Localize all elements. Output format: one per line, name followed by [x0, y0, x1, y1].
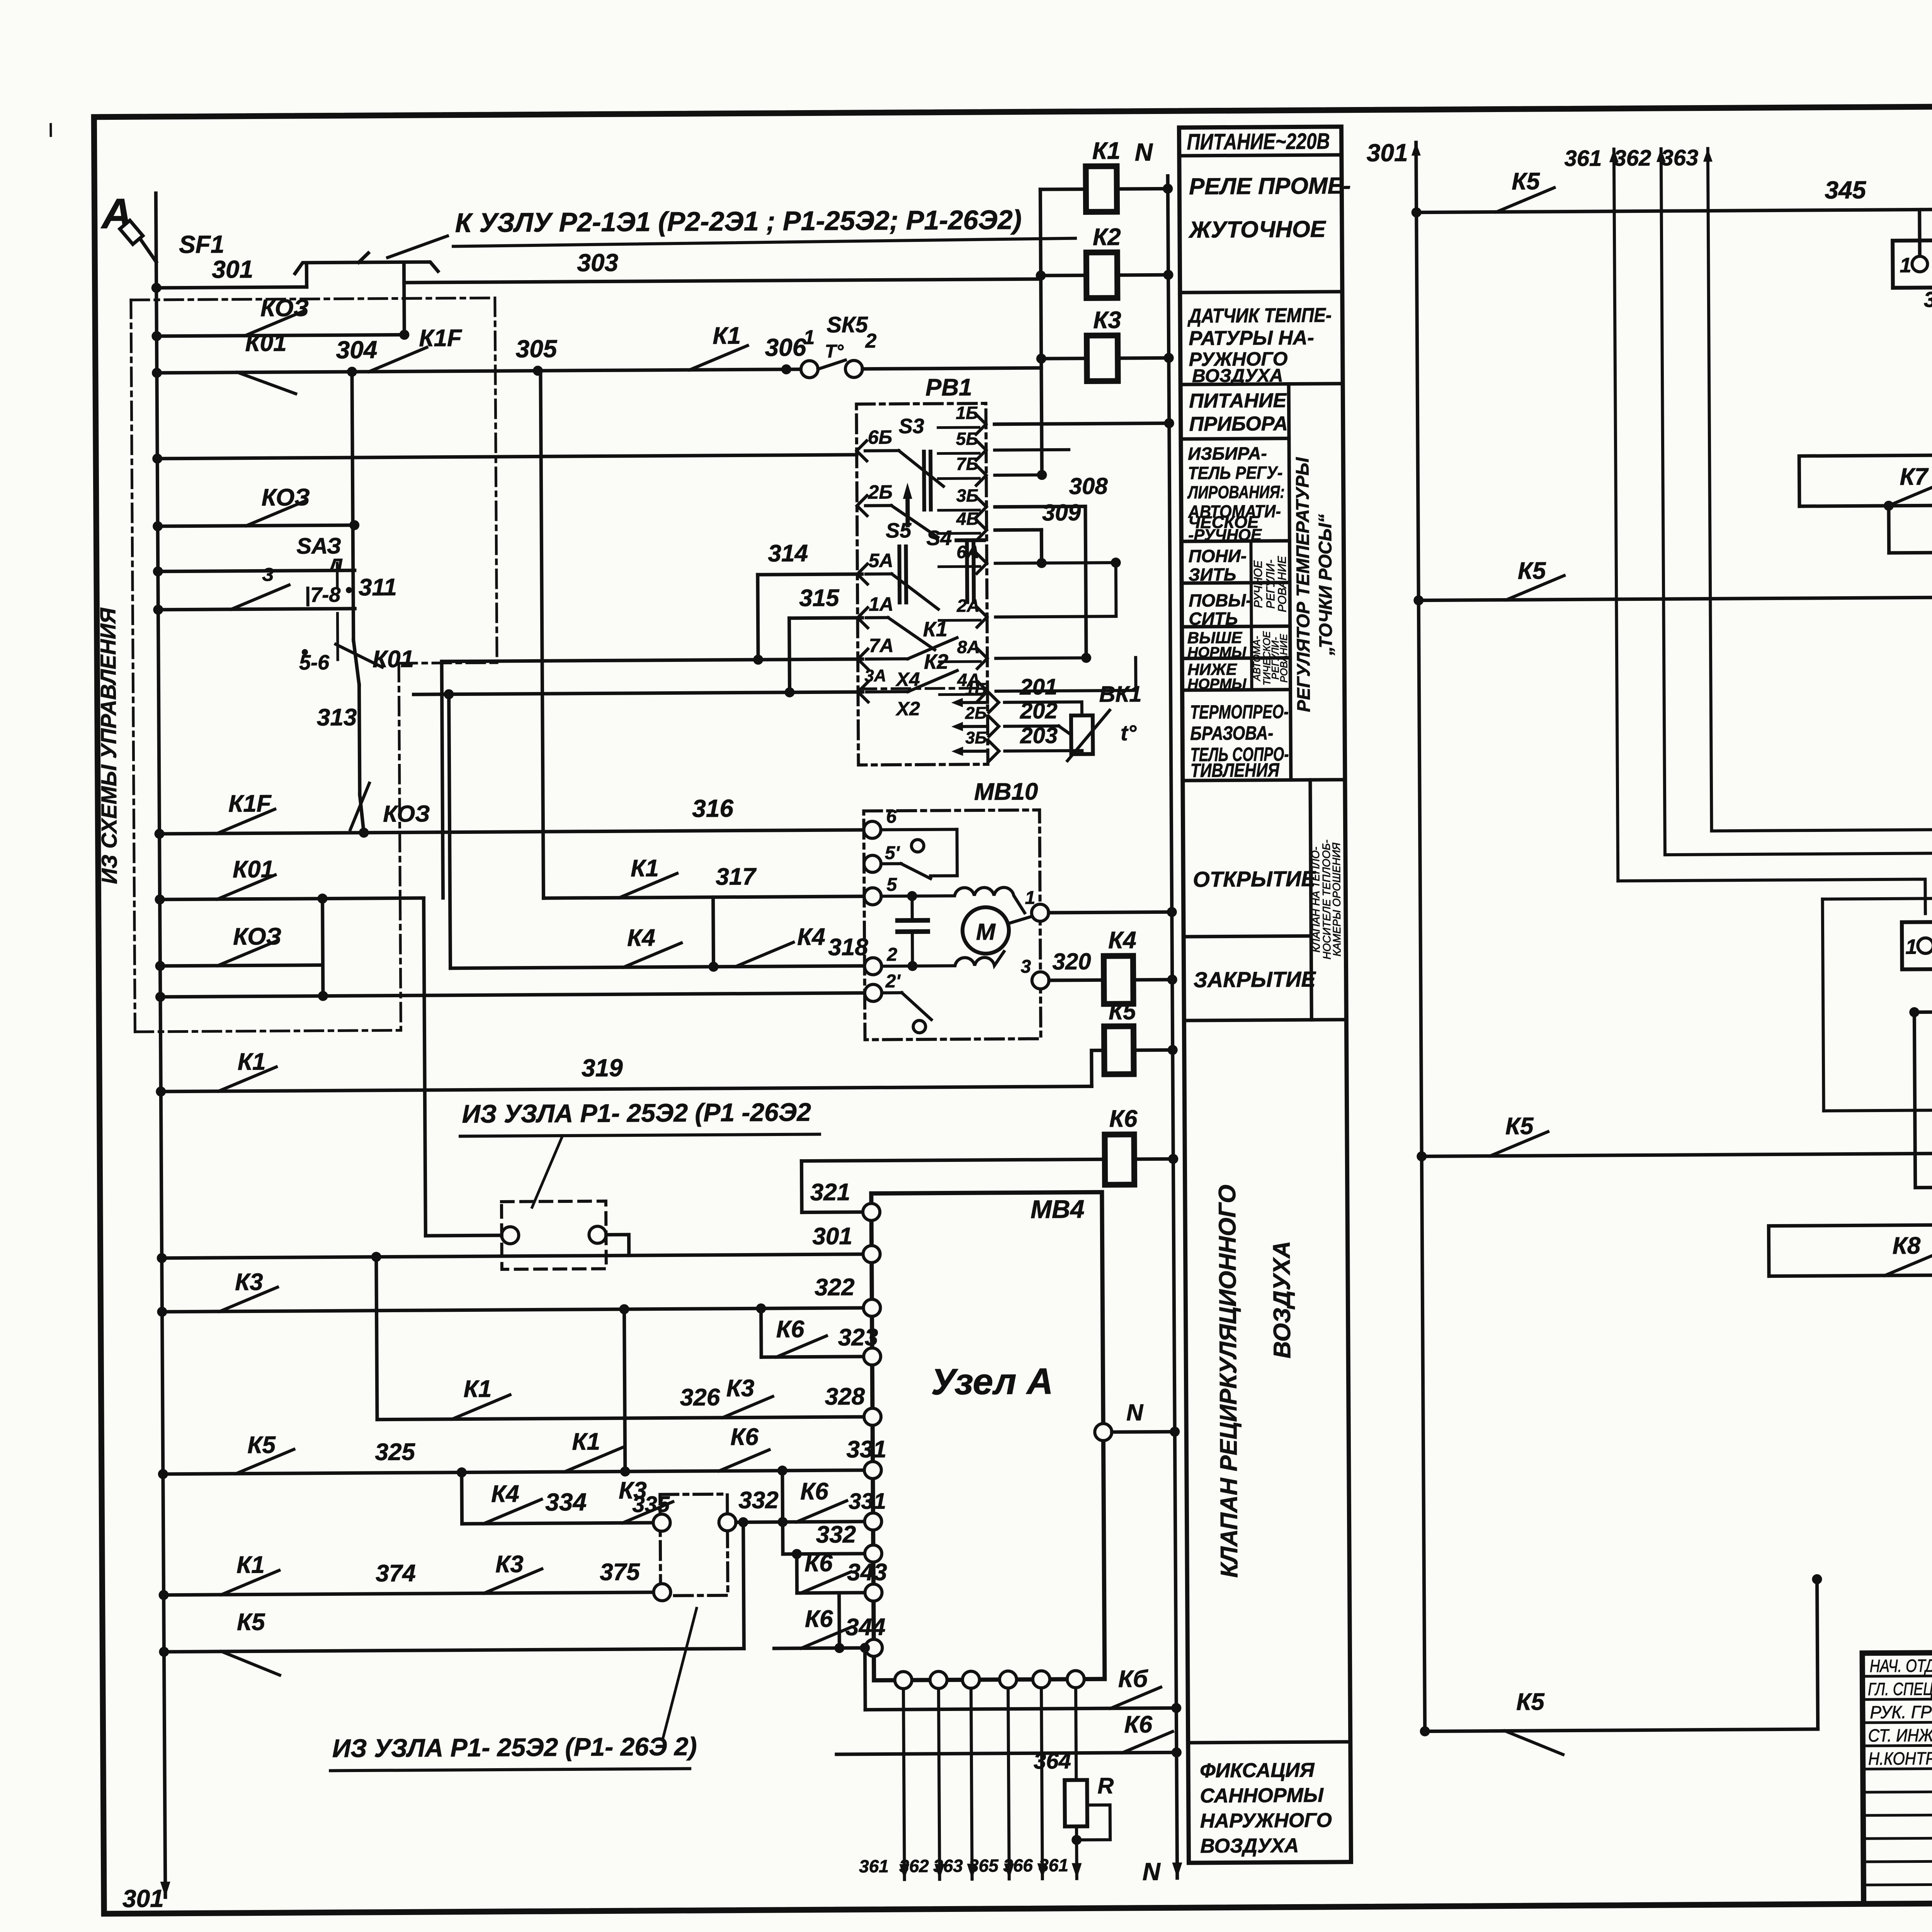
svg-text:РЕГУЛИ-: РЕГУЛИ- [1264, 560, 1277, 609]
selector switch SA3 rung [158, 570, 355, 571]
svg-text:345: 345 [1825, 176, 1867, 204]
vertical 314 to 7А wire [758, 575, 758, 660]
plug connector (dashed box) upper [502, 1201, 606, 1269]
svg-text:КОЗ: КОЗ [262, 484, 310, 511]
wire 301 rung to Узел А [162, 1254, 872, 1258]
svg-text:3Б: 3Б [965, 728, 987, 747]
wire 201 to ВК1 [1005, 702, 1082, 716]
svg-text:З: З [262, 565, 274, 585]
РВ1 pin 1Б right arrow [976, 414, 986, 434]
svg-text:8А: 8А [957, 637, 980, 657]
Узел А bottom pins [895, 1672, 912, 1689]
neutral bus N vertical [1168, 176, 1177, 1878]
svg-text:К5: К5 [1516, 1689, 1545, 1715]
svg-text:309: 309 [1042, 500, 1081, 526]
rotated tiny col Клапан на теплоносителе [1310, 780, 1311, 1020]
svg-text:366: 366 [1003, 1855, 1033, 1875]
sub column divider for Регулятор температуры точки росы [1289, 384, 1291, 780]
svg-text:РАТУРЫ НА-: РАТУРЫ НА- [1189, 327, 1314, 350]
wire 349 rung with К7 [1889, 552, 1932, 553]
wire 308 [995, 506, 1085, 507]
МВ10 internal lower switch [882, 991, 902, 994]
svg-text:361: 361 [1564, 146, 1602, 171]
svg-text:1: 1 [1025, 888, 1035, 908]
svg-text:К6: К6 [776, 1316, 804, 1343]
external connector bracket (serrated) [295, 262, 438, 274]
svg-text:Кб: Кб [1118, 1666, 1148, 1692]
link pin344 to Кб rung [863, 1648, 867, 1710]
МВ10 pin 2-prime [865, 984, 882, 1001]
МВ10 pin 5-prime [864, 855, 881, 872]
svg-text:КЛАПАН РЕЦИРКУЛЯЦИОННОГО: КЛАПАН РЕЦИРКУЛЯЦИОННОГО [1214, 1185, 1243, 1578]
row Питание прибора [1181, 439, 1289, 439]
svg-text:К6: К6 [730, 1423, 759, 1450]
vertical 343-344 [837, 1593, 841, 1648]
svg-text:ИЗ УЗЛА Р1- 25Э2 (Р1 -26Э2: ИЗ УЗЛА Р1- 25Э2 (Р1 -26Э2 [462, 1097, 811, 1128]
ВК1 diagonal arrow [1067, 710, 1110, 761]
Узел А block МВ4 [871, 1192, 1105, 1680]
МВ10 capacitor [898, 918, 928, 923]
РВ1 pin 6Б left arrow [857, 441, 867, 461]
KB1 lower pin 1 [1918, 938, 1932, 953]
svg-text:301: 301 [812, 1223, 852, 1250]
К2 contact inside РВ1 [867, 690, 908, 694]
svg-text:332: 332 [738, 1487, 779, 1514]
wire 315 [789, 618, 862, 618]
relay K2 leads [1041, 274, 1087, 277]
svg-text:364: 364 [1034, 1748, 1071, 1774]
svg-text:ТИВЛЕНИЯ: ТИВЛЕНИЯ [1190, 759, 1280, 781]
К1 contact inside РВ1 [866, 657, 908, 661]
svg-text:ПРИБОРА: ПРИБОРА [1189, 413, 1288, 435]
wire 301 riser legs to external connector bracket [305, 266, 308, 287]
wire from 8А [996, 658, 1086, 658]
svg-text:НОРМЫ: НОРМЫ [1187, 644, 1247, 661]
svg-text:К5: К5 [247, 1432, 276, 1458]
svg-text:344: 344 [845, 1614, 886, 1641]
svg-text:К5: К5 [1109, 998, 1136, 1024]
РВ1 lower pin 1Б with wire 201 [951, 698, 963, 707]
wire 363 elbow to strip2 pin3 [1712, 829, 1932, 915]
МВ10 pin 1 and wire to N [1032, 904, 1049, 921]
svg-text:374: 374 [376, 1560, 416, 1587]
svg-text:320: 320 [1052, 948, 1091, 975]
svg-text:К1: К1 [236, 1551, 265, 1578]
wire 348 rung with К7 [1799, 505, 1932, 506]
svg-text:Л: Л [328, 555, 343, 576]
svg-text:ИЗ УЗЛА Р1- 25Э2 (Р1- 26Э 2): ИЗ УЗЛА Р1- 25Э2 (Р1- 26Э 2) [332, 1732, 697, 1762]
МВ10 pin 5 [864, 888, 881, 905]
svg-text:К2: К2 [1093, 224, 1121, 250]
svg-text:311: 311 [359, 574, 397, 601]
МВ10 pin 2 [864, 957, 881, 975]
svg-text:К1F: К1F [228, 790, 272, 817]
svg-text:РОВАНИЕ: РОВАНИЕ [1278, 634, 1290, 683]
svg-text:5': 5' [885, 843, 900, 863]
svg-text:РУЧНОЕ: РУЧНОЕ [1252, 560, 1265, 608]
wire from 4А [996, 690, 1136, 691]
vertical 304-313 branch [352, 372, 354, 640]
svg-text:6Б: 6Б [868, 426, 893, 448]
К6 rung wire 323 [761, 1357, 872, 1357]
svg-text:Т°: Т° [825, 341, 844, 362]
РВ1 block boundary [856, 403, 988, 765]
row Реле промежуточное [1180, 292, 1342, 293]
wire 303 riser to relay column [1041, 279, 1041, 368]
svg-text:7А: 7А [869, 634, 894, 656]
svg-text:ПОВЫ-: ПОВЫ- [1189, 590, 1252, 611]
wire 332 from connector [736, 1520, 783, 1524]
svg-text:361: 361 [859, 1856, 889, 1876]
РВ1 pin 4Б right arrow [976, 520, 986, 540]
terminal strip KB1 lower [1902, 920, 1932, 969]
svg-text:5А: 5А [869, 549, 893, 571]
svg-text:304: 304 [336, 336, 377, 364]
svg-text:ТЕЛЬ РЕГУ-: ТЕЛЬ РЕГУ- [1188, 463, 1282, 483]
svg-text:ЖУТОЧНОЕ: ЖУТОЧНОЕ [1188, 216, 1327, 243]
contact К1 rung3 [690, 345, 748, 370]
svg-text:5: 5 [886, 874, 897, 895]
svg-text:318: 318 [828, 934, 868, 961]
svg-text:1А: 1А [869, 593, 893, 615]
svg-text:ОТКРЫТИЕ: ОТКРЫТИЕ [1193, 866, 1316, 891]
svg-text:3А: 3А [864, 666, 886, 685]
РВ1 pin 4А right arrow [977, 681, 987, 701]
svg-text:325: 325 [375, 1439, 415, 1466]
thermistor ВК1 [1071, 715, 1093, 754]
svg-text:7Б: 7Б [956, 454, 978, 474]
svg-text:КОЗ: КОЗ [233, 923, 282, 950]
РВ1 pin 8А right arrow [977, 648, 987, 668]
svg-text:КОЗ: КОЗ [383, 801, 430, 827]
svg-text:S3: S3 [899, 415, 924, 438]
row Избиратель регулирования [1181, 541, 1289, 542]
row Термопреобразователь сопротивления [1183, 780, 1345, 781]
1А internal diagonal [866, 616, 888, 619]
svg-text:SК5: SК5 [827, 312, 868, 338]
svg-text:315: 315 [799, 585, 840, 612]
pointer to К узлу text [388, 236, 447, 258]
РВ1 pin 3Б right arrow [976, 497, 986, 517]
svg-text:346: 346 [1924, 287, 1932, 312]
svg-text:К5: К5 [1518, 558, 1546, 584]
svg-text:К3: К3 [235, 1269, 263, 1295]
РВ1 pin 5А left arrow [857, 564, 867, 584]
svg-text:S5: S5 [886, 519, 912, 542]
svg-text:|7-8: |7-8 [304, 583, 340, 607]
svg-text:Узел А: Узел А [931, 1361, 1053, 1403]
wire from 2А [995, 616, 1116, 617]
svg-text:НАЧ. ОТД.: НАЧ. ОТД. [1870, 1655, 1932, 1676]
svg-text:ЗИТЬ: ЗИТЬ [1189, 564, 1236, 585]
relay K3 leads [1041, 357, 1087, 361]
relay K3 coil [1087, 335, 1118, 381]
svg-text:1: 1 [803, 326, 815, 349]
svg-text:К1: К1 [238, 1048, 266, 1075]
svg-text:БРАЗОВА-: БРАЗОВА- [1190, 722, 1273, 744]
rotated sub col автоматическое регулирование [1250, 626, 1253, 690]
svg-text:РЕЛЕ ПРОМЕ-: РЕЛЕ ПРОМЕ- [1189, 173, 1351, 199]
wires 361 362 363 verticals [1614, 149, 1618, 881]
svg-text:ВОЗДУХА: ВОЗДУХА [1269, 1241, 1296, 1359]
vertical 832 [323, 899, 323, 996]
svg-text:РЕГУЛЯТОР ТЕМПЕРАТУРЫ: РЕГУЛЯТОР ТЕМПЕРАТУРЫ [1292, 457, 1314, 712]
bus bottom arrow and label 301 [160, 1882, 170, 1897]
phase bus A vertical [156, 193, 165, 1897]
К3 rung wire 322 [162, 1308, 872, 1312]
svg-text:375: 375 [600, 1559, 640, 1586]
К01 rung (left block) [160, 898, 424, 900]
svg-text:К УЗЛУ Р2-1Э1 (Р2-2Э1 ; Р1-: К УЗЛУ Р2-1Э1 (Р2-2Э1 ; Р1-25Э2; Р1-26Э2… [455, 204, 1022, 238]
relay K5 coil [1104, 1026, 1134, 1074]
stray mark top left [49, 124, 52, 136]
svg-text:К2: К2 [924, 650, 949, 673]
svg-text:КОЗ: КОЗ [260, 295, 309, 322]
relay K1 coil [1086, 166, 1117, 212]
svg-text:306: 306 [765, 333, 806, 362]
РВ1 pin 7А left arrow [858, 649, 868, 669]
svg-text:К1F: К1F [419, 325, 463, 352]
svg-text:328: 328 [825, 1383, 865, 1410]
К5 rung middle right [1422, 1153, 1932, 1156]
svg-text:РОВАНИЕ: РОВАНИЕ [1276, 556, 1289, 612]
function column outer box [1179, 127, 1351, 1863]
wire 203 to ВК1 bottom [1005, 751, 1082, 755]
svg-text:201: 201 [1019, 674, 1057, 700]
riser to KB1 pin 1 [1918, 209, 1922, 257]
svg-text:SF1: SF1 [179, 230, 224, 259]
svg-text:321: 321 [810, 1179, 850, 1206]
К4 К3 rung wires 334 335 332 331 [462, 1523, 662, 1524]
К5 bottom rung right half [1425, 1729, 1818, 1731]
РВ1 pin 6А right arrow [977, 553, 987, 573]
pointer to plug connector [532, 1136, 563, 1207]
309 riser down [1040, 530, 1043, 563]
row Закрытие [1184, 1020, 1346, 1020]
svg-text:ИЗ СХЕМЫ УПРАВЛЕНИЯ: ИЗ СХЕМЫ УПРАВЛЕНИЯ [95, 607, 121, 884]
wire from 7Б up riser [995, 473, 1042, 477]
svg-text:К3: К3 [726, 1375, 754, 1401]
svg-text:К6: К6 [804, 1550, 833, 1577]
К1 К3 rung wires 374 375 [164, 1592, 662, 1595]
svg-text:1Б: 1Б [965, 680, 986, 699]
КОЗ rung (lower) [160, 965, 323, 966]
wire with contact КОЗ (upper) [156, 335, 404, 336]
К6 rung wire 343 [797, 1593, 874, 1593]
svg-text:317: 317 [716, 863, 757, 890]
row Датчик температуры наружного воздуха [1180, 384, 1343, 384]
svg-text:НАРУЖНОГО: НАРУЖНОГО [1200, 1809, 1332, 1832]
contact К01 on 313 branch [354, 640, 359, 685]
Кб rung (first bottom) [865, 1708, 1176, 1709]
wire 301 [156, 287, 307, 288]
bold up arrow near 2Б [903, 483, 912, 499]
svg-text:К3: К3 [1093, 307, 1121, 333]
svg-text:К6: К6 [800, 1478, 828, 1505]
К6 rung wire 331 (second) [783, 1522, 873, 1522]
wire 202 stub [1005, 724, 1059, 728]
svg-text:4Б: 4Б [956, 509, 979, 529]
wire 358 rung with К8 [1769, 1274, 1932, 1276]
svg-text:322: 322 [815, 1274, 855, 1301]
svg-text:N: N [1135, 138, 1153, 166]
РВ1 lower pin 2Б with wire 202 [951, 722, 963, 731]
svg-text:САННОРМЫ: САННОРМЫ [1200, 1784, 1324, 1807]
svg-text:2Б: 2Б [868, 481, 893, 503]
row Питание ~220В [1179, 155, 1342, 156]
svg-text:343: 343 [847, 1559, 887, 1586]
riser 317-318 [713, 897, 714, 967]
connector pins [502, 1227, 519, 1244]
svg-text:1Б: 1Б [956, 403, 978, 423]
МВ10 internal upper limit switch [881, 829, 957, 830]
svg-text:365: 365 [969, 1855, 999, 1876]
svg-text:2Б: 2Б [965, 704, 987, 723]
svg-text:К4: К4 [1108, 927, 1136, 954]
РВ1 pin 2А right arrow [977, 607, 987, 627]
5А internal diagonal [866, 572, 892, 575]
svg-text:3: 3 [1020, 956, 1031, 977]
svg-text:ВК1: ВК1 [1099, 682, 1141, 707]
wire 306 to relay column [862, 368, 1041, 369]
wire 317 rung with К1 [544, 896, 864, 898]
svg-text:К3: К3 [495, 1551, 524, 1578]
svg-text:ПИТАНИЕ: ПИТАНИЕ [1189, 389, 1287, 412]
МВ10 pin 6 [864, 821, 881, 838]
plug connector (dash-dot box) lower [660, 1494, 728, 1596]
319 riser to K5 relay [1092, 1050, 1105, 1086]
contact K1F [369, 347, 427, 372]
svg-text:ВОЗДУХА: ВОЗДУХА [1192, 366, 1283, 386]
РВ1 pin 2Б left arrow [857, 496, 867, 516]
contact КОЗ (second) [158, 525, 354, 526]
row Выше нормы [1182, 658, 1290, 659]
vertical 1144 down from 7А wire [442, 662, 443, 898]
svg-text:S4: S4 [926, 526, 952, 549]
svg-text:3Б: 3Б [956, 485, 979, 505]
wire 357 pin riser [1914, 1011, 1932, 1187]
svg-text:ВОЗДУХА: ВОЗДУХА [1200, 1834, 1299, 1857]
phase bus 301 right half [1416, 143, 1425, 1731]
Узел А bottom pin wires to arrows [903, 1689, 905, 1879]
vertical 1607 [624, 1309, 625, 1471]
wire out of connector to 301 rung [606, 1235, 629, 1255]
svg-text:К01: К01 [372, 646, 414, 673]
contact КОЗ on 313 [360, 795, 364, 833]
svg-text:319: 319 [582, 1054, 623, 1082]
relay K1 leads [1040, 187, 1086, 191]
2Б internal diagonal [866, 504, 891, 507]
svg-text:МВ4: МВ4 [1031, 1195, 1085, 1224]
svg-text:314: 314 [768, 540, 808, 567]
svg-text:ГЛ. СПЕЦ.: ГЛ. СПЕЦ. [1868, 1679, 1932, 1699]
svg-text:362: 362 [1614, 145, 1651, 171]
K6 coil left lead to wire 321 [801, 1159, 1105, 1161]
svg-text:ПИТАНИЕ~220В: ПИТАНИЕ~220В [1187, 129, 1330, 155]
svg-text:К4: К4 [627, 925, 655, 951]
svg-text:363: 363 [933, 1855, 963, 1876]
title block row lines left part [1862, 1675, 1932, 1676]
relay K2 coil [1086, 252, 1117, 298]
svg-text:К1: К1 [631, 855, 659, 882]
svg-text:313: 313 [317, 704, 357, 731]
row Ниже нормы [1182, 690, 1291, 690]
long rung to МВ10 pin 2-prime [160, 993, 865, 997]
N bus bottom arrow [1172, 1862, 1182, 1878]
tall row Клапан рециркуляционного воздуха [1188, 1742, 1350, 1743]
circuit breaker SF1 [133, 229, 156, 262]
7А horizontal wire [442, 659, 862, 662]
X4 X2 divider [858, 688, 988, 689]
svg-text:НОРМЫ: НОРМЫ [1187, 676, 1247, 692]
МВ10 pin 3 and wire 320 [1032, 972, 1049, 989]
svg-text:301: 301 [122, 1884, 164, 1913]
svg-text:К6: К6 [805, 1605, 833, 1632]
svg-text:„ТОЧКИ РОСЫ“: „ТОЧКИ РОСЫ“ [1315, 514, 1336, 656]
svg-text:N: N [1126, 1400, 1144, 1425]
svg-text:М: М [976, 919, 996, 945]
svg-text:К1: К1 [572, 1429, 600, 1455]
svg-text:К1: К1 [713, 322, 741, 349]
svg-text:К8: К8 [1892, 1232, 1920, 1259]
К5 rung wire 345 top [1417, 207, 1932, 213]
R side loop [1077, 1805, 1111, 1840]
svg-text:334: 334 [545, 1488, 587, 1516]
К1 rung with wire 319 [161, 1086, 1092, 1091]
svg-text:X2: X2 [895, 698, 920, 719]
riser 1912 to 332 [743, 1522, 744, 1648]
РВ1 pin 5Б right arrow [976, 440, 986, 460]
pointer to lower Из узла text [662, 1608, 697, 1740]
svg-text:326: 326 [680, 1384, 720, 1411]
rung 304-305-306 with К01 K1F К1 SK5 [157, 369, 810, 372]
K1F rung with wire 316 [160, 830, 864, 834]
РВ1 lower pin 3Б with wire 203 [951, 747, 963, 756]
wire from 6А [995, 563, 1116, 563]
svg-text:316: 316 [692, 794, 734, 823]
wire 313 vertical [359, 685, 360, 795]
svg-text:К5: К5 [1512, 168, 1540, 195]
svg-text:ФИКСАЦИЯ: ФИКСАЦИЯ [1200, 1759, 1315, 1782]
К1 К3 rung wires 326 328 [377, 1417, 872, 1420]
МВ10 upper winding [881, 887, 1024, 913]
wire 346 rung with К5 [1418, 597, 1932, 600]
relay K4 coil [1104, 956, 1133, 1004]
title block outer box [1862, 1648, 1932, 1904]
svg-text:К6: К6 [1124, 1711, 1152, 1738]
308 riser down [1085, 506, 1086, 658]
svg-text:363: 363 [1661, 145, 1698, 171]
wire 357 rung with К8 relay [1914, 1010, 1932, 1012]
svg-text:К1: К1 [923, 617, 948, 641]
svg-text:СИТЬ: СИТЬ [1189, 608, 1238, 629]
svg-text:К7: К7 [1900, 463, 1929, 490]
svg-text:N: N [1142, 1857, 1161, 1885]
row Повысить [1182, 626, 1290, 627]
svg-text:2: 2 [865, 330, 876, 352]
svg-text:303: 303 [577, 248, 618, 277]
svg-text:305: 305 [515, 335, 558, 363]
svg-text:К01: К01 [233, 856, 274, 883]
svg-text:КАМЕРЫ ОРОШЕНИЯ: КАМЕРЫ ОРОШЕНИЯ [1330, 842, 1343, 957]
wire into connector [425, 1235, 502, 1236]
dash-dot control-scheme boundary [131, 298, 499, 1032]
row Понизить [1182, 583, 1290, 583]
svg-text:2: 2 [886, 944, 897, 965]
svg-text:К4: К4 [797, 923, 825, 950]
svg-text:t°: t° [1121, 721, 1137, 745]
svg-text:К5: К5 [237, 1609, 265, 1635]
